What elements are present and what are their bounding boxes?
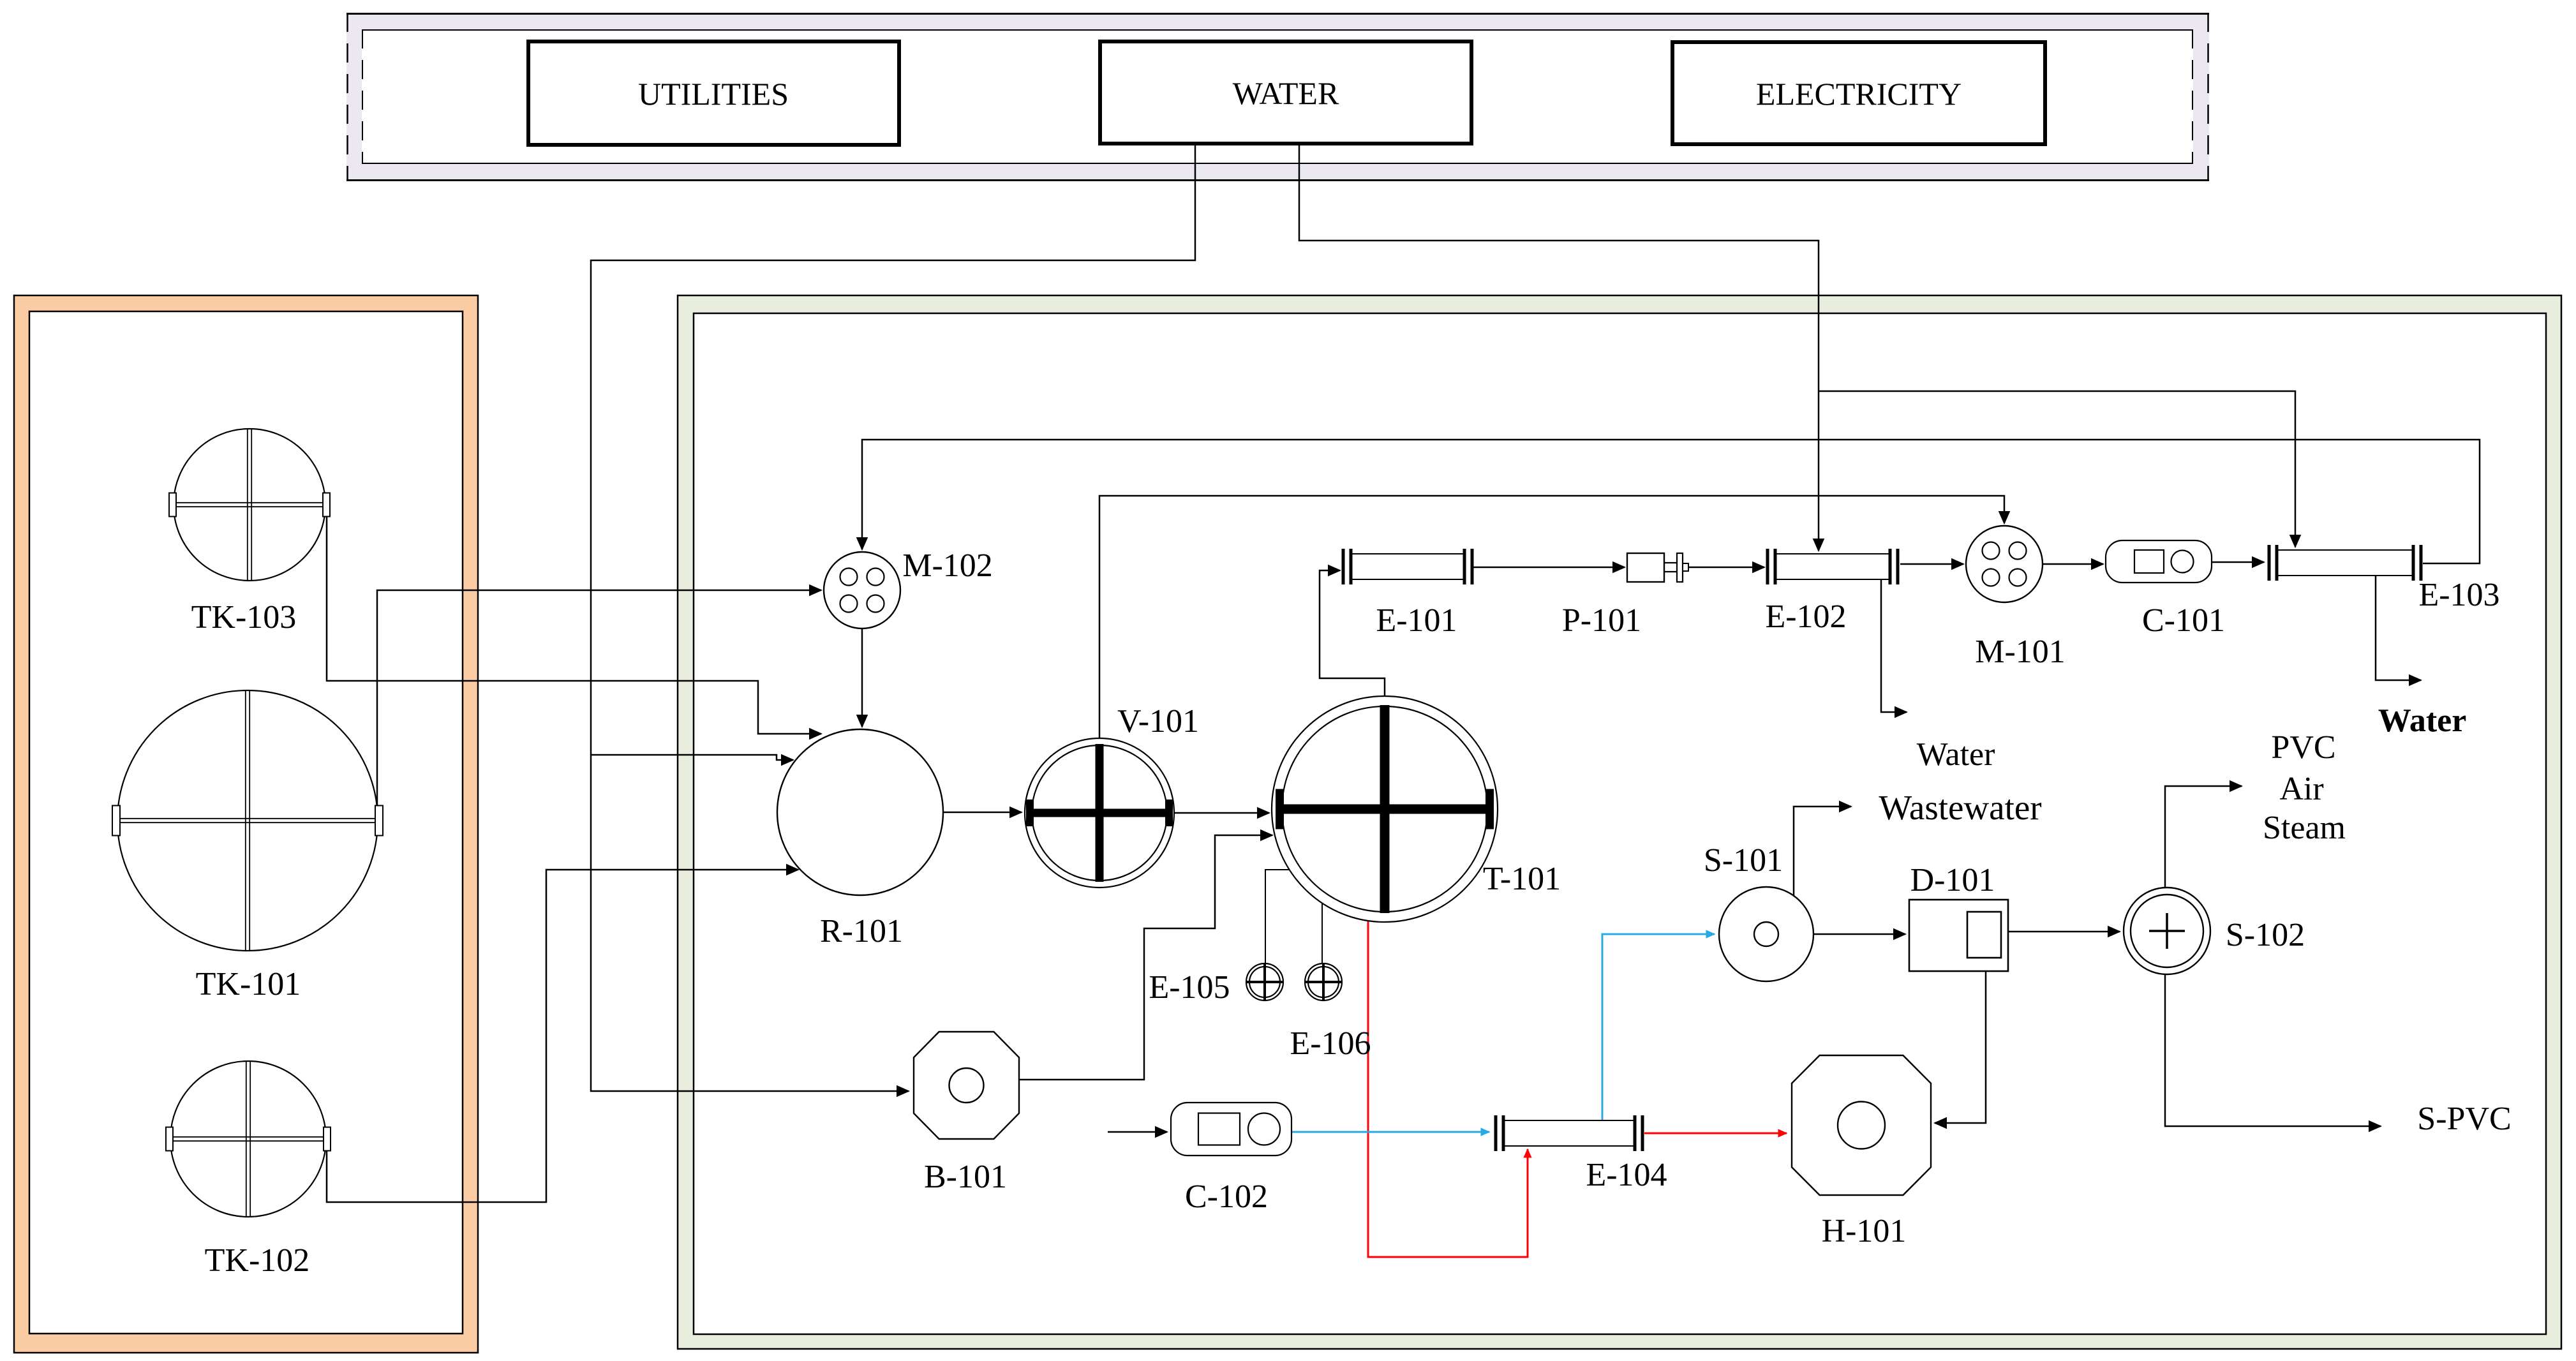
svg-text:D-101: D-101	[1910, 862, 1995, 898]
svg-text:WATER: WATER	[1233, 75, 1339, 111]
svg-text:UTILITIES: UTILITIES	[638, 76, 789, 112]
svg-text:TK-102: TK-102	[205, 1242, 310, 1279]
svg-text:S-102: S-102	[2226, 917, 2305, 953]
svg-text:TK-101: TK-101	[196, 966, 301, 1002]
svg-text:TK-103: TK-103	[191, 599, 297, 636]
svg-text:Wastewater: Wastewater	[1879, 788, 2041, 827]
svg-text:H-101: H-101	[1822, 1213, 1907, 1249]
svg-text:S-PVC: S-PVC	[2417, 1101, 2511, 1137]
svg-text:C-102: C-102	[1185, 1179, 1268, 1215]
svg-text:R-101: R-101	[820, 913, 903, 949]
svg-text:E-105: E-105	[1149, 969, 1230, 1006]
svg-text:P-101: P-101	[1562, 602, 1641, 639]
svg-text:E-106: E-106	[1290, 1025, 1371, 1062]
svg-text:E-104: E-104	[1586, 1157, 1667, 1193]
svg-text:E-103: E-103	[2418, 577, 2499, 613]
svg-text:PVC: PVC	[2271, 729, 2335, 766]
svg-text:ELECTRICITY: ELECTRICITY	[1756, 76, 1962, 112]
svg-text:C-101: C-101	[2142, 602, 2225, 639]
svg-text:M-102: M-102	[902, 547, 993, 584]
svg-text:E-102: E-102	[1765, 599, 1846, 635]
svg-text:B-101: B-101	[924, 1159, 1007, 1195]
svg-text:S-101: S-101	[1704, 842, 1783, 879]
svg-text:Steam: Steam	[2263, 810, 2346, 846]
svg-text:Air: Air	[2279, 771, 2323, 807]
svg-text:Water: Water	[2378, 703, 2467, 739]
svg-text:V-101: V-101	[1117, 703, 1199, 740]
svg-text:Water: Water	[1917, 736, 1995, 773]
svg-text:E-101: E-101	[1376, 602, 1457, 639]
svg-text:T-101: T-101	[1483, 861, 1561, 897]
svg-text:M-101: M-101	[1975, 634, 2066, 670]
